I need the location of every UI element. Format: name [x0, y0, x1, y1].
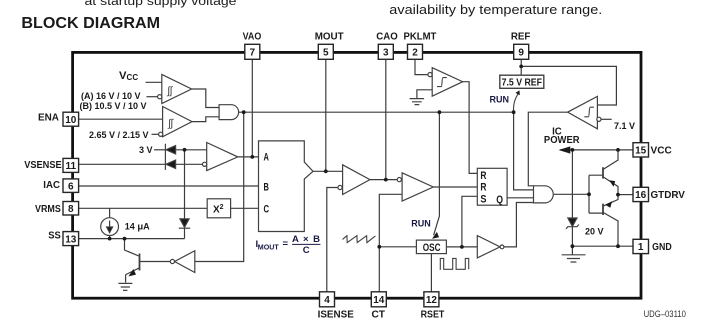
svg-text:RUN: RUN	[411, 219, 431, 229]
wire 3V reference to clamp diode	[154, 149, 166, 151]
wire zener rail from VCC to ground	[571, 150, 573, 246]
wire PKLMT comparator output to flip-flop R	[463, 82, 478, 174]
wire REF pin down to 7.5V reference	[520, 60, 522, 75]
AND gate U11 output	[534, 186, 554, 203]
svg-text:7: 7	[250, 47, 256, 58]
pin 13 SS box	[63, 232, 79, 246]
svg-text:CT: CT	[372, 309, 386, 320]
wire ENA pin to comparator	[79, 118, 163, 120]
svg-text:3 V: 3 V	[139, 145, 153, 155]
wire multiplier output to current amp	[313, 170, 343, 172]
wire bottom driver collector to ground rail	[603, 212, 618, 246]
comparator U2 ENA	[163, 107, 192, 137]
wire ground stub below zener rail	[571, 246, 573, 254]
svg-text:1: 1	[638, 242, 644, 253]
ground below peak limit comparator	[410, 99, 425, 105]
svg-text:OSC: OSC	[423, 242, 441, 254]
junction node zener at GND rail	[571, 244, 575, 248]
wire VRMS pin to squarer	[79, 207, 208, 209]
wire top driver emitter to GTDRV node	[603, 177, 618, 195]
junction node 3V clamp	[183, 148, 187, 152]
wire flip-flop Q to gate	[507, 197, 533, 199]
hysteresis step glyph in U12	[584, 107, 594, 117]
wire PKLMT comparator noninverting input to ground	[417, 90, 432, 99]
junction node REF at 7.5V reference	[519, 65, 523, 69]
pin 6 IAC box	[63, 179, 79, 193]
wire SS transistor emitter to ground	[125, 275, 127, 283]
pin 9 REF box	[514, 44, 529, 59]
sawtooth glyph on CT	[343, 236, 376, 243]
svg-text:20 V: 20 V	[585, 227, 604, 237]
transistor Q1 SS discharge	[139, 254, 141, 271]
svg-text:VCC: VCC	[651, 145, 672, 156]
svg-text:(A) 16 V / 10 V: (A) 16 V / 10 V	[81, 91, 141, 101]
RUN arrow head at OSC	[432, 232, 439, 239]
svg-text:3: 3	[383, 47, 389, 58]
svg-text:MOUT: MOUT	[315, 32, 344, 43]
svg-text:C: C	[303, 245, 310, 256]
junction node at enable AND output	[242, 110, 246, 114]
svg-text:6: 6	[68, 181, 74, 192]
comparator U1 VCC UVLO	[162, 74, 192, 103]
svg-text:IAC: IAC	[43, 180, 60, 191]
wire SS clamp diode to SS line	[184, 228, 186, 238]
wire OSC output to flip-flop S	[446, 196, 477, 247]
inverter U10 blanking	[477, 236, 500, 258]
wire PKLMT pin to comparator inverting input	[415, 60, 428, 75]
junction node CT sawtooth	[377, 245, 381, 249]
wire reference output to supply comparator input	[521, 66, 616, 105]
wire RSET pin up to OSC	[430, 254, 432, 292]
svg-text:9: 9	[518, 47, 524, 58]
junction node driver collector at GND rail	[616, 244, 620, 248]
svg-text:R: R	[480, 170, 486, 182]
svg-text:BLOCK DIAGRAM: BLOCK DIAGRAM	[21, 15, 160, 32]
svg-text:R: R	[480, 182, 486, 194]
wire top driver collector to VCC	[603, 150, 618, 170]
junction node RUN to OSC branch	[438, 110, 442, 114]
wire RUN branch down to OSC with arrow	[434, 112, 440, 235]
wire VAO pin down to amp output node	[251, 60, 253, 157]
diode D1 D2 shared cathode bar	[164, 144, 166, 170]
multiplier formula fraction bar	[292, 243, 320, 245]
wire clamp diode to voltage amp noninverting input	[176, 149, 207, 151]
junction node MOUT	[324, 169, 328, 173]
svg-text:B: B	[264, 182, 270, 194]
svg-text:14: 14	[373, 295, 385, 306]
svg-text:15: 15	[635, 146, 647, 157]
svg-text:ISENSE: ISENSE	[318, 309, 355, 320]
junction node driver bases	[587, 192, 591, 196]
wire IAC pin to multiplier B	[79, 185, 259, 187]
comparator U7 PWM	[402, 173, 433, 201]
wire CT line to OSC input	[379, 246, 416, 248]
current source I1 14uA	[101, 218, 119, 236]
svg-text:A × B: A × B	[292, 234, 320, 245]
wire MOUT pin down to multiplier output line	[325, 60, 327, 172]
transistor Q2 driver NPN top	[602, 167, 604, 178]
wire current amp output to PWM comparator	[370, 179, 397, 181]
wire UVLO threshold to inverting bubble	[147, 96, 158, 98]
svg-text:VAO: VAO	[243, 32, 262, 43]
wire GND pin rail	[572, 245, 633, 247]
diode D1 3V clamp top	[166, 146, 176, 154]
junction node RUN switch	[512, 110, 516, 114]
svg-text:S: S	[480, 193, 486, 205]
wire SS discharge transistor collector	[125, 239, 139, 256]
wire 3V node down to SS clamp diode	[184, 150, 186, 219]
pin 2 PKLMT box	[408, 44, 423, 59]
IC power arrow	[559, 146, 571, 153]
wire RUN branch down to output gate	[514, 112, 534, 190]
pin 7 VAO box	[245, 44, 260, 59]
svg-text:CAO: CAO	[376, 32, 398, 43]
junction node CAO	[384, 178, 388, 182]
wire bottom driver emitter from GTDRV node	[603, 195, 618, 207]
op-amp U4 voltage amp	[207, 143, 238, 171]
transistor Q3 driver PNP bottom	[602, 204, 604, 215]
svg-text:10: 10	[65, 115, 77, 126]
svg-text:7.5 V REF: 7.5 V REF	[502, 77, 543, 89]
wire blanking inverter output up to gate	[504, 203, 534, 247]
wire RUN net: AND output across to IC-power junction	[239, 111, 514, 113]
svg-text:RUN: RUN	[490, 95, 510, 105]
OSC block	[416, 240, 446, 254]
junction node OSC to S branch	[460, 245, 464, 249]
junction node driver collector at VCC rail	[616, 148, 620, 152]
svg-text:14 μA: 14 μA	[125, 221, 150, 232]
junction node GTDRV	[616, 193, 620, 197]
svg-text:C: C	[264, 203, 270, 215]
svg-text:5: 5	[323, 47, 329, 58]
svg-text:REF: REF	[511, 32, 531, 43]
pin 16 GTDRV box	[633, 187, 649, 201]
pin 14 CT box	[371, 292, 386, 307]
svg-text:SS: SS	[48, 230, 61, 241]
RUN switch arrow to 7.5V reference	[514, 93, 519, 112]
svg-text:12: 12	[426, 295, 438, 306]
svg-text:A: A	[264, 151, 270, 163]
svg-text:=: =	[283, 239, 289, 250]
junction node zener at VCC rail	[571, 148, 575, 152]
svg-text:UDG–03110: UDG–03110	[644, 309, 686, 320]
svg-text:GND: GND	[652, 242, 672, 253]
pin 3 CAO box	[378, 44, 393, 59]
wire VSENSE pin to diode and inverting input	[79, 163, 203, 165]
wire ISENSE pin up to current amp inverting input	[327, 188, 338, 292]
squarer X2 block	[207, 199, 230, 218]
svg-text:VCC: VCC	[119, 70, 138, 82]
7.5V reference box	[500, 75, 544, 88]
svg-text:VSENSE: VSENSE	[24, 160, 62, 171]
diode D2 3V clamp bottom	[166, 160, 176, 168]
svg-text:POWER: POWER	[544, 135, 580, 146]
hysteresis glyph in U8	[437, 78, 447, 87]
pin 8 VRMS box	[63, 202, 79, 216]
inverter U5 SS	[175, 251, 195, 273]
svg-text:availability by temperature ra: availability by temperature range.	[389, 2, 602, 17]
wire supply comparator output to output gate	[528, 112, 567, 186]
svg-text:MOUT: MOUT	[258, 245, 280, 252]
diode D3 SS clamp	[180, 219, 189, 228]
junction node Q1 collector on SS line	[123, 237, 127, 241]
svg-text:Q: Q	[496, 194, 503, 206]
pin 15 VCC box	[633, 143, 649, 157]
pin 5 MOUT box	[318, 44, 333, 59]
svg-text:PKLMT: PKLMT	[404, 32, 437, 43]
wire CAO pin down to current amp output	[385, 60, 387, 180]
wire VCC pin rail	[560, 149, 633, 151]
svg-text:8: 8	[68, 204, 74, 215]
ground below Q1	[118, 283, 132, 290]
svg-text:2.65 V / 2.15 V: 2.65 V / 2.15 V	[89, 130, 149, 140]
ground below zener	[562, 255, 586, 262]
svg-text:RSET: RSET	[421, 309, 445, 320]
zener D4 20V	[568, 218, 577, 226]
wire RUN branch down to SS inverter input	[195, 112, 244, 261]
main block border	[73, 52, 641, 298]
flip-flop U9 RS latch box	[477, 168, 507, 205]
pin 1 GND box	[633, 239, 649, 253]
multiplier block	[259, 141, 314, 232]
wire GTDRV node to pin	[618, 194, 633, 196]
op-amp U6 current amp	[343, 165, 370, 195]
comparator U8 peak limit	[432, 68, 463, 97]
svg-text:at startup supply voltage: at startup supply voltage	[85, 0, 237, 8]
pin 4 ISENSE box	[320, 292, 335, 307]
wire VCC label to UVLO comparator	[146, 81, 162, 83]
svg-text:11: 11	[66, 161, 77, 172]
pin 10 ENA box	[63, 112, 79, 126]
svg-text:4: 4	[324, 295, 330, 306]
wire SS inverter output to transistor base	[140, 261, 171, 263]
svg-text:2: 2	[412, 47, 418, 58]
pulse glyph at OSC output	[440, 258, 469, 269]
svg-text:16: 16	[635, 190, 647, 201]
AND gate U3 enable	[219, 105, 239, 120]
comparator U12 supply monitor (points left)	[568, 96, 598, 128]
svg-text:ENA: ENA	[38, 113, 59, 124]
svg-text:(B) 10.5 V / 10 V: (B) 10.5 V / 10 V	[80, 101, 147, 111]
wire output gate to driver bases	[554, 193, 589, 195]
wire PWM comparator output to flip-flop R	[433, 186, 477, 188]
wire SS pin line	[79, 238, 185, 240]
wire driver base rail	[589, 175, 603, 213]
wire supply comparator 7.1V stub	[601, 118, 612, 120]
pin 11 VSENSE box	[63, 158, 79, 172]
svg-text:VRMS: VRMS	[35, 204, 61, 215]
wire squarer to multiplier C	[231, 207, 259, 209]
wire 14uA source stub from VRMS line	[109, 208, 111, 238]
junction node VAO at amp output	[250, 155, 254, 159]
pin 12 RSET box	[424, 292, 439, 307]
wire CT pin up to PWM comparator noninverting input	[379, 194, 402, 291]
svg-text:7.1 V: 7.1 V	[614, 121, 635, 131]
wire ENA comparator output to AND gate	[192, 117, 219, 122]
junction node 14uA on SS line	[108, 237, 112, 241]
wire UVLO comparator output to AND gate	[192, 89, 220, 108]
svg-text:13: 13	[65, 234, 77, 245]
wire voltage amp output to multiplier A	[238, 156, 259, 158]
wire ENA threshold to inverting bubble	[152, 133, 159, 135]
svg-text:GTDRV: GTDRV	[651, 190, 686, 201]
